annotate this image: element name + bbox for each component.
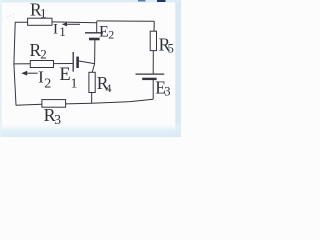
wire R2 to E1 (54, 63, 73, 65)
wire R5 bottom lead (152, 51, 154, 74)
wire E3 bottom lead (152, 80, 154, 99)
wire bottom left segment (16, 104, 42, 105)
wire R4 bottom lead (91, 93, 93, 104)
resistor R5 (150, 31, 156, 50)
resistor R4 (89, 72, 95, 92)
wire E2 top stub (96, 21, 98, 32)
left blue band (0, 0, 2, 137)
battery E2 long plate (85, 32, 103, 34)
svg-text:4: 4 (106, 81, 112, 95)
svg-text:I: I (38, 68, 44, 87)
svg-text:1: 1 (40, 6, 47, 21)
svg-text:5: 5 (168, 42, 174, 56)
battery E1 long plate (72, 52, 74, 72)
current arrow I1 (62, 22, 80, 26)
svg-text:2: 2 (108, 28, 114, 42)
wire E1 to junction (79, 61, 95, 64)
wire middle left to R2 (14, 63, 30, 65)
battery E3 thick plate (142, 78, 156, 80)
battery E2 thick plate (89, 38, 100, 41)
svg-text:3: 3 (164, 85, 170, 99)
wire bottom right segment (66, 99, 154, 104)
right blue band (175, 0, 181, 137)
resistor R2 (30, 61, 53, 68)
faint pencil smudge top-left (7, 14, 15, 18)
svg-text:E: E (59, 65, 70, 85)
svg-text:I: I (53, 21, 58, 37)
svg-text:2: 2 (44, 76, 51, 91)
top edge dark text remnant 2 (157, 0, 166, 2)
wire E2 stub to top-right corner (97, 20, 155, 22)
svg-text:1: 1 (71, 76, 78, 91)
wire R1 to E2 stub (52, 21, 97, 24)
page background (0, 0, 181, 137)
battery E1 thick plate (76, 57, 79, 68)
resistor R1 (28, 18, 52, 25)
wire R5 top lead (153, 21, 155, 31)
svg-text:3: 3 (54, 112, 61, 127)
current arrow I2 (21, 71, 37, 76)
resistor R3 (42, 100, 66, 108)
svg-text:1: 1 (59, 24, 65, 39)
wire left vertical (14, 23, 16, 106)
wire top-left to R1 (15, 21, 28, 23)
svg-text:2: 2 (40, 46, 47, 61)
battery E3 long plate (136, 73, 165, 75)
top edge dark text remnant 1 (138, 0, 146, 2)
wire E2 to junction to R4 (92, 40, 95, 72)
top blue band (0, 0, 181, 2)
